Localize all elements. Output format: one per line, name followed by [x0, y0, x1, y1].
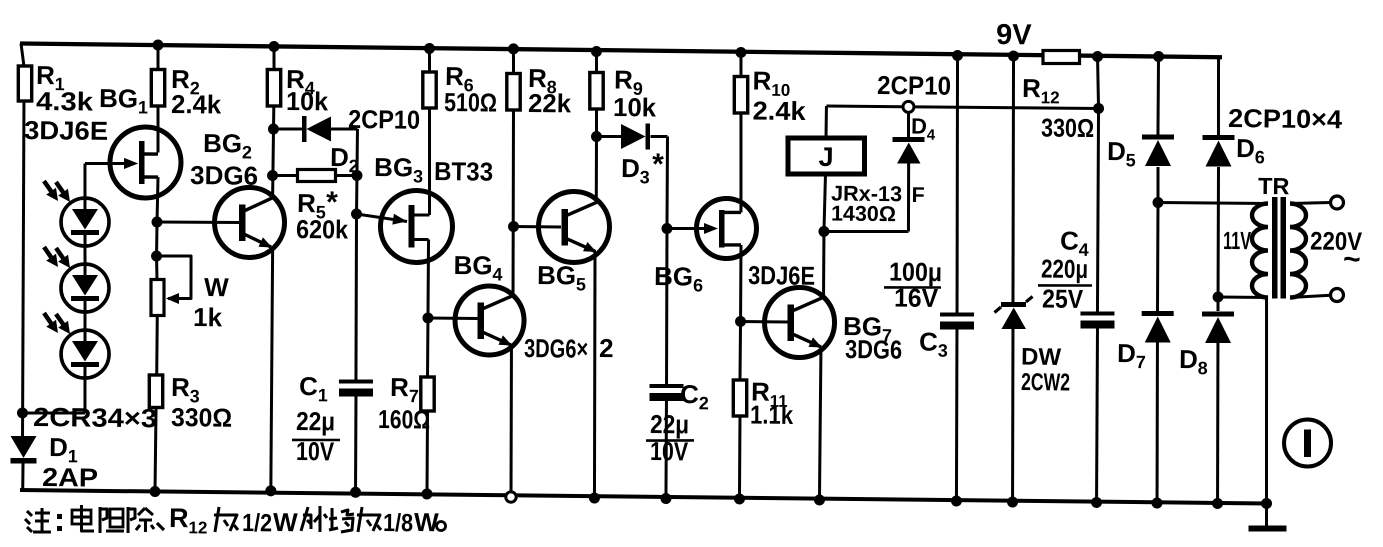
svg-text:4.3k: 4.3k — [36, 86, 94, 117]
svg-text:2AP: 2AP — [42, 462, 98, 493]
svg-text:25V: 25V — [1042, 284, 1084, 314]
svg-text:3DG6×: 3DG6× — [524, 333, 588, 364]
svg-text:220μ: 220μ — [1041, 254, 1088, 285]
svg-text:10k: 10k — [613, 92, 657, 122]
svg-text:TR: TR — [1258, 173, 1290, 199]
svg-text:330Ω: 330Ω — [171, 402, 232, 433]
svg-text:2CP10: 2CP10 — [348, 104, 420, 135]
svg-text:2CR34×3: 2CR34×3 — [33, 402, 157, 433]
svg-text:9V: 9V — [996, 19, 1032, 51]
svg-text:2.4k: 2.4k — [171, 89, 222, 120]
svg-text:1.1k: 1.1k — [750, 399, 794, 429]
svg-text:*: * — [652, 148, 664, 181]
svg-text:3DG6: 3DG6 — [845, 334, 902, 365]
svg-text:2CW2: 2CW2 — [1021, 369, 1070, 397]
svg-text:1k: 1k — [193, 302, 223, 332]
svg-text:2.4k: 2.4k — [752, 95, 806, 126]
svg-text:160Ω: 160Ω — [378, 404, 430, 435]
svg-text:10k: 10k — [286, 86, 329, 116]
svg-text:16V: 16V — [894, 282, 939, 312]
svg-text:3DG6: 3DG6 — [190, 160, 258, 191]
svg-text:3DJ6E: 3DJ6E — [24, 115, 108, 146]
svg-text:510Ω: 510Ω — [444, 87, 497, 118]
svg-text:DW: DW — [1021, 344, 1062, 371]
svg-text:22μ: 22μ — [650, 409, 689, 439]
svg-text:1430Ω: 1430Ω — [831, 201, 896, 226]
svg-text:W: W — [273, 507, 298, 537]
svg-text:2CP10×4: 2CP10×4 — [1228, 103, 1343, 134]
svg-text:BT33: BT33 — [434, 156, 493, 187]
svg-text:620k: 620k — [296, 214, 349, 245]
svg-text:2: 2 — [599, 333, 614, 363]
svg-text:J: J — [818, 142, 833, 172]
svg-text:F: F — [911, 183, 924, 207]
svg-text:1/2: 1/2 — [242, 509, 272, 537]
svg-text:1/8: 1/8 — [383, 509, 413, 537]
svg-text:11V: 11V — [1223, 227, 1252, 255]
svg-text:22μ: 22μ — [296, 406, 335, 436]
svg-text:2CP10: 2CP10 — [877, 70, 951, 101]
svg-text:330Ω: 330Ω — [1041, 113, 1094, 144]
svg-text:W: W — [414, 507, 439, 537]
svg-text:W: W — [204, 272, 229, 302]
svg-text:~: ~ — [1343, 243, 1361, 276]
svg-text:3DJ6E: 3DJ6E — [748, 260, 815, 291]
svg-text:22k: 22k — [528, 88, 572, 118]
